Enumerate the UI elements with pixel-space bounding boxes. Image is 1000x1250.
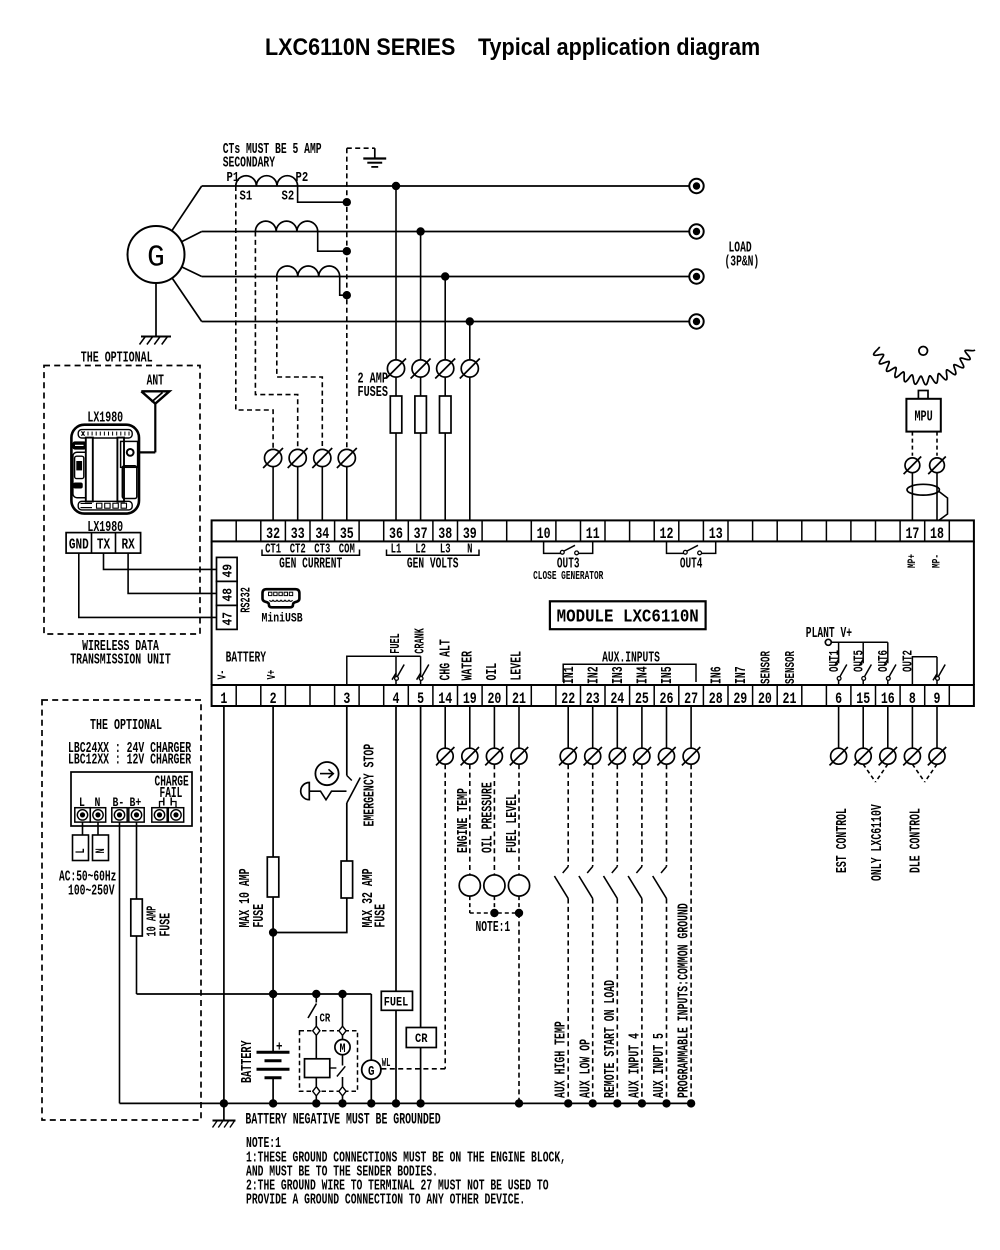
svg-text:11: 11 — [586, 527, 600, 544]
wire CT1 to terminal — [272, 467, 274, 521]
svg-text:48: 48 — [219, 588, 236, 602]
dashed pair 8 9 — [912, 764, 924, 782]
svg-text:BATTERY NEGATIVE MUST BE GROUN: BATTERY NEGATIVE MUST BE GROUNDED — [245, 1110, 440, 1128]
svg-text:MP+: MP+ — [906, 554, 919, 568]
CT3 primary coil — [277, 266, 340, 276]
disconnect L3 sense — [437, 360, 454, 377]
disconnect OIL sender — [493, 706, 495, 748]
wire GND to terminal 47 — [79, 553, 217, 617]
svg-text:MiniUSB: MiniUSB — [262, 611, 303, 626]
fuse 2A L1 — [395, 377, 397, 396]
svg-text:P2: P2 — [296, 170, 309, 186]
AC input L — [82, 822, 84, 835]
svg-text:SENSOR: SENSOR — [758, 650, 775, 684]
disconnect CT1 — [265, 449, 282, 466]
MiniUSB connector — [263, 589, 300, 607]
wire L3 sense — [444, 277, 446, 360]
svg-text:LBC12XX : 12V CHARGER: LBC12XX : 12V CHARGER — [68, 750, 191, 768]
relay contact OUT4 — [667, 541, 684, 553]
module name plate — [550, 601, 706, 629]
svg-text:27: 27 — [684, 691, 698, 708]
svg-text:28: 28 — [709, 691, 723, 708]
svg-text:26: 26 — [660, 691, 674, 708]
svg-text:RS232: RS232 — [240, 587, 254, 613]
svg-text:CLOSE GENERATOR: CLOSE GENERATOR — [533, 570, 604, 583]
generator ground wire — [155, 283, 157, 336]
svg-text:1: 1 — [220, 691, 227, 708]
generator G phase leads — [172, 186, 202, 231]
starter dashed box — [300, 1031, 358, 1092]
fuse MAX 32 AMP — [346, 861, 348, 898]
svg-text:2: 2 — [270, 691, 277, 708]
junction CR switch branch — [312, 990, 320, 998]
svg-text:N: N — [95, 848, 109, 853]
svg-text:LXC6110N SERIES: LXC6110N SERIES — [265, 33, 455, 61]
svg-text:NOTE:1: NOTE:1 — [476, 919, 511, 936]
svg-text:100~250V: 100~250V — [68, 883, 115, 900]
wire B- to bus — [119, 822, 121, 1103]
dashed WATER sender lead — [469, 764, 471, 875]
disconnect N sense — [461, 360, 478, 377]
starter motor M — [342, 1035, 344, 1039]
load terminal L1 — [689, 179, 703, 193]
start relay CR switch — [315, 994, 317, 1003]
svg-text:MPU: MPU — [914, 408, 932, 426]
dashed fuel level to bus — [518, 913, 520, 1103]
FUEL solenoid box — [381, 991, 412, 1010]
wireless GND TX RX terminal block — [66, 533, 141, 554]
charger body — [71, 772, 192, 826]
CT common dashed link to earth — [347, 147, 375, 149]
svg-text:21: 21 — [512, 691, 526, 708]
svg-text:3: 3 — [343, 691, 350, 708]
svg-text:5: 5 — [417, 691, 424, 708]
svg-text:G: G — [368, 1064, 375, 1079]
svg-text:AUX INPUT 5: AUX INPUT 5 — [650, 1033, 668, 1098]
bus junction dots — [220, 1099, 228, 1107]
sender bulb OIL — [484, 875, 505, 896]
dashed chg alt to WL — [444, 764, 446, 1069]
junction CT3 common — [343, 291, 351, 299]
svg-text:29: 29 — [733, 691, 747, 708]
disconnect COM — [338, 449, 355, 466]
battery negative bus — [120, 1102, 693, 1104]
svg-text:CR: CR — [320, 1012, 331, 1026]
svg-text:8: 8 — [909, 691, 916, 708]
aux switch IN2 — [592, 764, 594, 866]
disconnect IN2 — [592, 706, 594, 748]
emergency stop switch — [347, 776, 352, 781]
disconnect IN4 — [641, 706, 643, 748]
aux switch IN5 — [666, 764, 668, 866]
svg-text:MP-: MP- — [930, 554, 943, 568]
aux switch IN3 — [616, 764, 618, 866]
bracket GEN VOLTS — [387, 550, 480, 556]
output disconnects 6 15 16 8 9 — [838, 706, 840, 748]
load terminal L2 — [689, 224, 703, 238]
emergency stop circle arrow — [315, 762, 338, 785]
wire COM to terminal — [346, 467, 348, 521]
junction phase L1 sense — [392, 182, 400, 190]
wire L2 sense — [420, 232, 422, 360]
svg-text:14: 14 — [438, 691, 452, 708]
wire TX to terminal 49 — [104, 553, 217, 569]
disconnect IN5 — [666, 706, 668, 748]
svg-text:DLE CONTROL: DLE CONTROL — [906, 808, 924, 873]
disconnect L2 sense — [412, 360, 429, 377]
junction CT1 common — [343, 198, 351, 206]
svg-text:15: 15 — [856, 691, 870, 708]
svg-text:47: 47 — [219, 612, 236, 626]
wire B+ down — [136, 822, 138, 899]
generator G — [128, 226, 185, 283]
wire L1 sense — [395, 186, 397, 360]
svg-text:L: L — [75, 848, 89, 853]
phase wire N — [202, 321, 690, 323]
wire RX to terminal 48 — [128, 553, 216, 593]
svg-text:THE OPTIONAL: THE OPTIONAL — [81, 349, 153, 367]
svg-text:17: 17 — [905, 527, 919, 544]
svg-text:OUT4: OUT4 — [680, 556, 703, 573]
svg-text:EMERGENCY STOP: EMERGENCY STOP — [361, 744, 379, 827]
dashed OIL sender lead — [493, 764, 495, 875]
svg-text:CHG ALT: CHG ALT — [436, 639, 454, 681]
plant V+ rail — [831, 641, 888, 643]
CT2 S1 dashed lead to terminal 33 — [255, 232, 297, 450]
svg-text:IN5: IN5 — [659, 666, 675, 684]
svg-text:AUX LOW OP: AUX LOW OP — [576, 1039, 594, 1098]
dashed box charger option — [42, 700, 201, 1120]
wire 32A fuse to battery line — [273, 898, 347, 933]
CT2 S2 tap wire — [318, 232, 347, 252]
chassis ground battery negative — [223, 1103, 225, 1120]
svg-text:OIL: OIL — [483, 663, 501, 681]
svg-text:IN2: IN2 — [586, 666, 602, 684]
svg-text:BATTERY: BATTERY — [226, 650, 267, 667]
charge fail contact — [160, 802, 164, 808]
svg-text:9: 9 — [934, 691, 941, 708]
svg-text:IN3: IN3 — [610, 666, 626, 684]
svg-text:G: G — [147, 241, 165, 276]
svg-text:TRANSMISSION UNIT: TRANSMISSION UNIT — [70, 651, 171, 669]
internal rail fuel crank — [347, 656, 421, 685]
sender bulb WATER — [459, 875, 480, 896]
junction phase L3 sense — [441, 272, 449, 280]
terminal 49 48 47 block RS232 — [217, 557, 238, 581]
svg-text:49: 49 — [219, 564, 236, 578]
plant V+ node — [825, 639, 831, 645]
top terminal strip — [212, 520, 974, 541]
relay contact OUT5 — [862, 642, 864, 663]
wire terminal 2 V+ down — [272, 706, 274, 857]
CT common dashed lead to terminal 35 — [346, 148, 348, 449]
dashed LEVEL sender lead — [518, 764, 520, 875]
fuse 2A L2 — [420, 377, 422, 396]
svg-text:10: 10 — [537, 527, 551, 544]
CT3 S1 dashed lead to terminal 34 — [277, 277, 323, 450]
disconnect CT3 — [314, 449, 331, 466]
generator chassis ground — [141, 336, 171, 338]
antenna — [141, 391, 169, 403]
relay contact OUT1 — [838, 641, 840, 643]
svg-text:OUT1: OUT1 — [826, 650, 843, 672]
svg-text:LEVEL: LEVEL — [508, 651, 526, 681]
svg-text:TX: TX — [97, 536, 110, 553]
wire CT2 to terminal — [297, 467, 299, 521]
CT1 S2 tap wire — [298, 186, 347, 202]
svg-text:21: 21 — [783, 691, 797, 708]
svg-text:S1: S1 — [240, 188, 253, 204]
bracket aux inputs — [563, 664, 696, 682]
svg-text:S2: S2 — [282, 188, 295, 204]
disconnect CT2 — [289, 449, 306, 466]
earth ground CT common — [374, 148, 376, 158]
svg-text:IN4: IN4 — [635, 666, 651, 684]
MPU dashed leads — [911, 432, 913, 456]
svg-text:(3P&N): (3P&N) — [725, 254, 760, 271]
junction sender common LEVEL — [515, 909, 523, 917]
dashed pair 15 16 — [863, 764, 875, 782]
aux switch IN4 — [641, 764, 643, 866]
svg-text:19: 19 — [463, 691, 477, 708]
svg-text:20: 20 — [487, 691, 501, 708]
fuse MAX 10 AMP — [272, 857, 274, 897]
junction V+ 32A — [269, 928, 277, 936]
relay contact FUEL internal — [395, 656, 397, 677]
svg-text:OUT5: OUT5 — [851, 650, 868, 672]
svg-text:ENGINE TEMP: ENGINE TEMP — [454, 788, 472, 853]
CT1 primary coil — [236, 176, 298, 186]
svg-text:M: M — [339, 1043, 345, 1056]
wire CT3 to terminal — [321, 467, 323, 521]
relay contact OUT6 — [887, 642, 889, 663]
svg-text:FUEL: FUEL — [384, 994, 408, 1010]
junction sender common OIL — [490, 909, 498, 917]
svg-text:OIL PRESSURE: OIL PRESSURE — [478, 782, 496, 853]
svg-text:12: 12 — [660, 527, 674, 544]
svg-text:GND: GND — [69, 536, 89, 553]
sender bulb LEVEL — [508, 875, 529, 896]
disconnect COMMON — [690, 706, 692, 748]
common ground dashed lead — [690, 764, 692, 1103]
svg-text:EST CONTROL: EST CONTROL — [833, 808, 851, 873]
MPU pickup nub — [918, 391, 928, 399]
junction M branch — [338, 990, 346, 998]
svg-text:25: 25 — [635, 691, 649, 708]
svg-text:CR: CR — [415, 1031, 428, 1046]
antenna connector circle — [127, 449, 134, 456]
svg-text:AUX INPUT 4: AUX INPUT 4 — [625, 1033, 643, 1098]
svg-text:V+: V+ — [266, 670, 280, 680]
svg-text:IN7: IN7 — [733, 666, 749, 684]
sender common dashed link — [469, 896, 471, 913]
svg-text:IN1: IN1 — [561, 666, 577, 684]
svg-text:OUT6: OUT6 — [875, 650, 892, 672]
flywheel gear — [874, 347, 975, 385]
phase wire L2 — [202, 231, 690, 233]
svg-text:RX: RX — [121, 536, 134, 553]
junction phase L2 sense — [416, 227, 424, 235]
svg-text:FUEL: FUEL — [390, 633, 404, 654]
svg-text:V-: V- — [216, 670, 230, 680]
module LXC6110N body outline — [211, 541, 213, 685]
phase wire L3 — [202, 276, 690, 278]
charge warning lamp G WL — [362, 1060, 381, 1079]
CT3 S2 tap wire — [340, 277, 347, 296]
junction V+ rail — [269, 990, 277, 998]
svg-text:FUSES: FUSES — [358, 383, 389, 401]
svg-text:FUEL LEVEL: FUEL LEVEL — [503, 794, 521, 853]
emergency stop head — [301, 783, 310, 800]
wire N sense to terminal 39 — [469, 377, 471, 520]
svg-text:REMOTE START ON LOAD: REMOTE START ON LOAD — [601, 980, 619, 1098]
junction CT2 common — [343, 247, 351, 255]
svg-text:AUX HIGH TEMP: AUX HIGH TEMP — [552, 1021, 570, 1098]
CR relay box — [406, 1028, 436, 1048]
fuse 10 AMP — [136, 899, 138, 936]
svg-text:23: 23 — [586, 691, 600, 708]
battery + rail — [137, 993, 372, 995]
svg-text:6: 6 — [835, 691, 842, 708]
svg-text:FUSE: FUSE — [156, 913, 174, 937]
svg-text:WL: WL — [382, 1056, 391, 1069]
LX1980 wireless module — [71, 425, 139, 514]
relay contact OUT2 bridge — [912, 657, 937, 685]
relay coil CR — [315, 1035, 317, 1058]
svg-text:4: 4 — [393, 691, 400, 708]
phase wire L1 — [202, 185, 690, 187]
svg-text:PROVIDE A GROUND CONNECTION TO: PROVIDE A GROUND CONNECTION TO ANY OTHER… — [246, 1192, 525, 1209]
svg-text:PROGRAMMABLE INPUTS:COMMON GRO: PROGRAMMABLE INPUTS:COMMON GROUND — [675, 903, 693, 1098]
svg-text:16: 16 — [881, 691, 895, 708]
svg-text:18: 18 — [930, 527, 944, 544]
svg-text:Typical application diagram: Typical application diagram — [478, 33, 760, 61]
dashed box wireless option — [44, 366, 200, 635]
load terminal L3 — [689, 269, 703, 283]
svg-text:20: 20 — [758, 691, 772, 708]
relay contact OUT3 — [544, 541, 561, 553]
twisted pair loop — [907, 484, 939, 495]
wire terminal 4 fuel solenoid — [395, 706, 397, 991]
load terminal N — [689, 314, 703, 328]
svg-text:P1: P1 — [227, 170, 240, 186]
disconnect IN1 — [567, 706, 569, 748]
svg-text:ONLY LXC6110V: ONLY LXC6110V — [868, 804, 886, 881]
svg-text:FUSE: FUSE — [250, 904, 268, 928]
junction phase N sense — [466, 317, 474, 325]
svg-text:13: 13 — [709, 527, 723, 544]
disconnect WATER sender — [469, 706, 471, 748]
svg-text:THE OPTIONAL: THE OPTIONAL — [90, 716, 162, 734]
svg-text:GEN CURRENT: GEN CURRENT — [279, 556, 342, 573]
disconnect MP+ — [905, 458, 920, 473]
aux switch IN1 — [567, 764, 569, 866]
svg-text:24: 24 — [610, 691, 624, 708]
svg-text:CRANK: CRANK — [414, 628, 428, 654]
svg-text:FUSE: FUSE — [371, 904, 389, 928]
shield drain to terminal 18 — [939, 492, 948, 521]
wire terminal 1 V- down — [223, 706, 225, 1103]
wire terminal 5 crank relay — [420, 706, 422, 1028]
svg-text:WATER: WATER — [458, 651, 476, 681]
svg-text:BATTERY: BATTERY — [238, 1040, 256, 1083]
wire terminal 3 down — [346, 706, 348, 776]
disconnect CHG ALT — [444, 706, 446, 748]
svg-text:OUT2: OUT2 — [900, 650, 917, 672]
AC input N — [97, 822, 99, 835]
svg-text:ANT: ANT — [147, 373, 165, 390]
disconnect LEVEL sender — [518, 706, 520, 748]
disconnect MP- — [930, 458, 945, 473]
svg-text:SENSOR: SENSOR — [782, 650, 799, 684]
starter contact blade — [330, 1067, 337, 1069]
disconnect IN3 — [616, 706, 618, 748]
svg-text:GEN VOLTS: GEN VOLTS — [407, 556, 459, 573]
wire N sense — [469, 322, 471, 360]
svg-text:MODULE LXC6110N: MODULE LXC6110N — [557, 607, 699, 628]
bottom terminal strip — [212, 685, 974, 706]
twisted pair wires to 17 18 — [911, 473, 913, 521]
CT1 S1 dashed lead to terminal 32 — [236, 186, 273, 450]
disconnect L1 sense — [387, 360, 404, 377]
MPU sensor — [906, 399, 940, 432]
fuse 2A L3 — [444, 377, 446, 396]
relay contact CRANK internal — [420, 656, 422, 677]
svg-text:IN6: IN6 — [709, 666, 725, 684]
CT2 primary coil — [255, 221, 317, 231]
svg-text:22: 22 — [561, 691, 575, 708]
contact diamonds — [313, 1026, 320, 1035]
bracket GEN CURRENT — [262, 550, 360, 556]
charger terminals — [75, 808, 90, 822]
gear hub hole — [919, 347, 928, 356]
